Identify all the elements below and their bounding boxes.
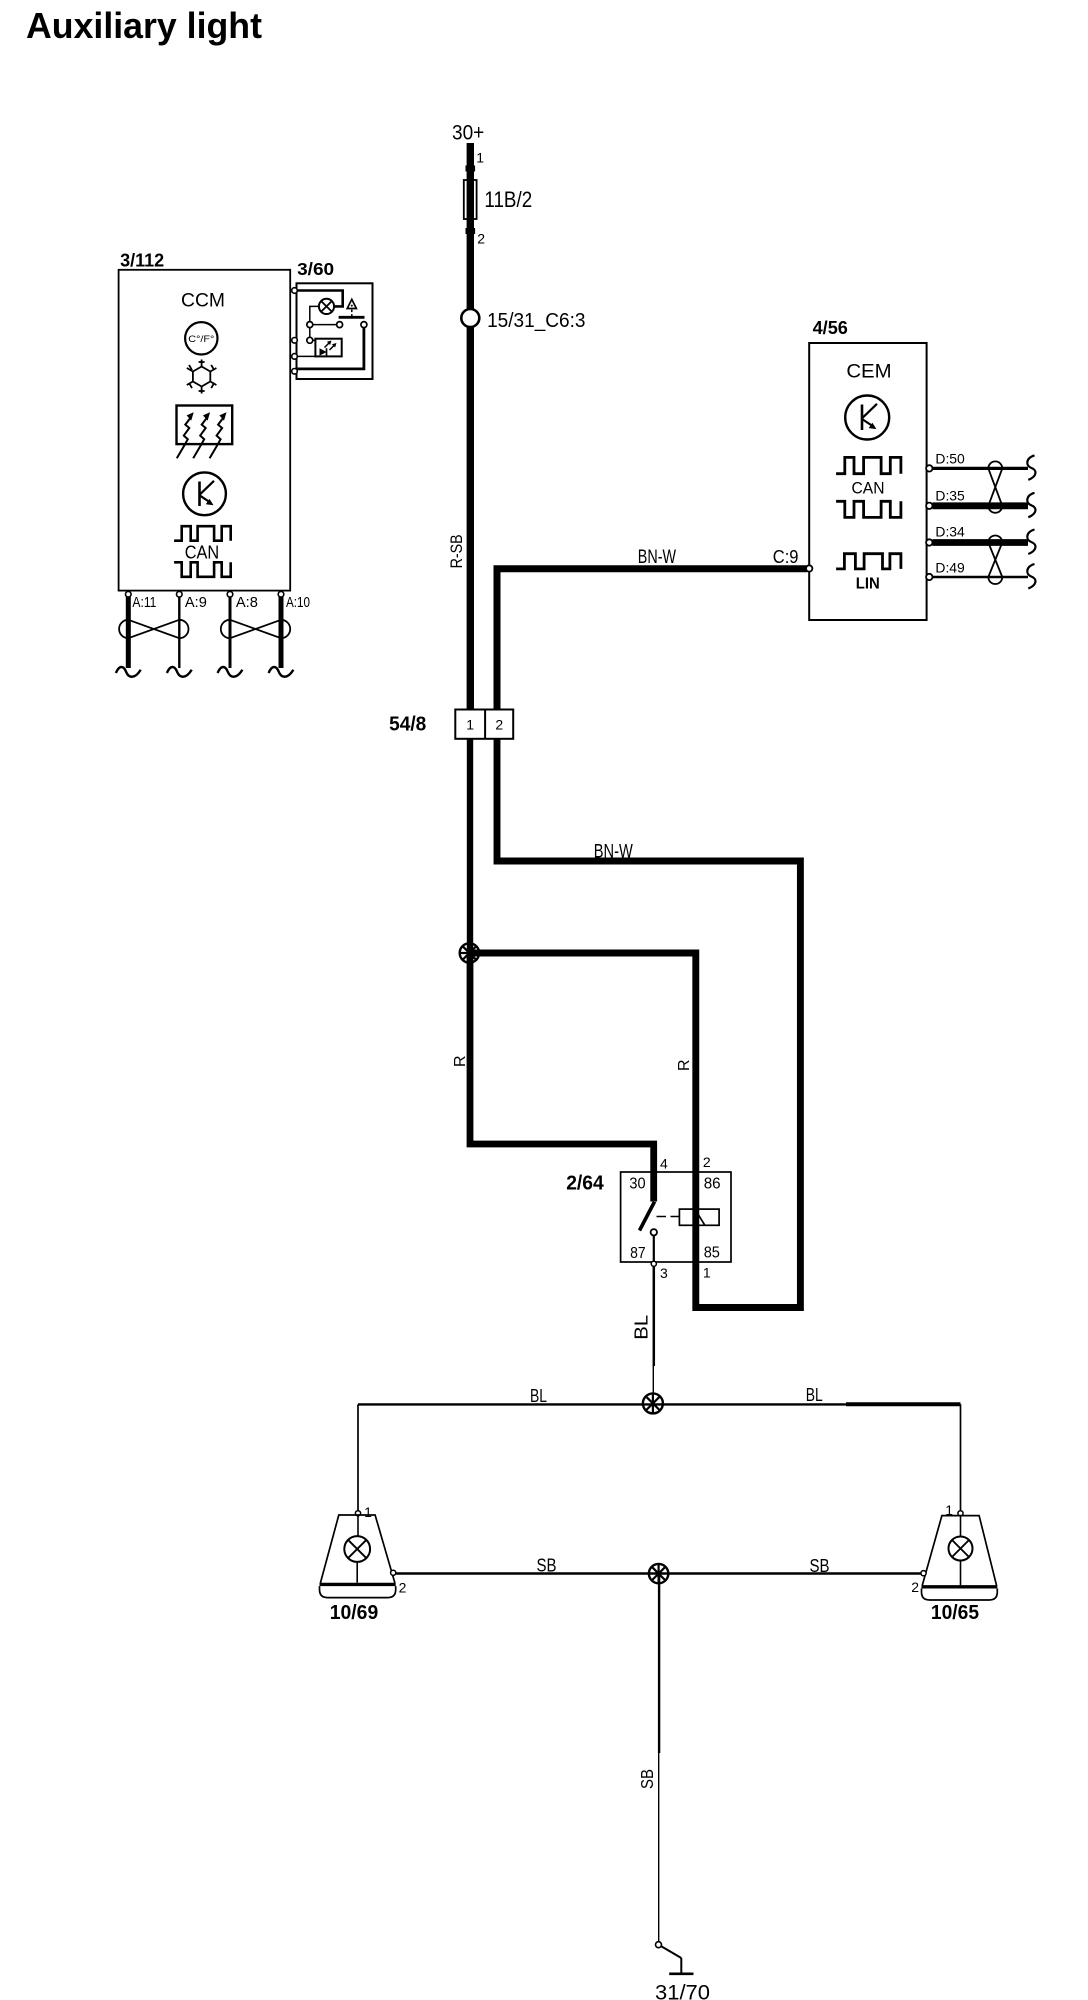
svg-text:CAN: CAN <box>185 542 219 562</box>
fuse 11B/2 <box>464 180 477 219</box>
CCM temperature icon <box>185 322 217 354</box>
twisted pair A:8/A:10 <box>221 620 290 638</box>
relay wire contact to pin 3 <box>653 1236 655 1264</box>
wire from D:34 <box>933 539 1029 546</box>
svg-text:CAN: CAN <box>852 480 885 498</box>
3/60 switch bar <box>339 316 365 319</box>
3/60 node to LED <box>307 337 313 343</box>
node 15/31_C6:3 <box>461 309 479 327</box>
wire R-SB trunk (30+ to connector 54/8 pin 1) <box>467 143 474 711</box>
svg-text:10/65: 10/65 <box>931 1602 979 1624</box>
svg-text:BN-W: BN-W <box>638 547 676 568</box>
svg-text:87: 87 <box>630 1245 646 1262</box>
svg-text:CEM: CEM <box>846 361 891 383</box>
svg-text:3: 3 <box>660 1265 668 1281</box>
relay coil <box>679 1209 719 1225</box>
svg-text:86: 86 <box>704 1176 721 1193</box>
3/60 node <box>337 322 343 328</box>
wire R (connector pin 1 down to junction) <box>467 739 473 953</box>
svg-text:1: 1 <box>703 1264 711 1280</box>
svg-text:85: 85 <box>704 1244 720 1261</box>
svg-text:R: R <box>676 1059 693 1071</box>
wire from A:11 <box>126 597 131 668</box>
wire BL drop to lamp 10/69 <box>357 1404 359 1511</box>
svg-text:54/8: 54/8 <box>389 713 426 735</box>
svg-text:31/70: 31/70 <box>655 1982 710 2000</box>
wire end curl D:50 <box>1027 455 1035 480</box>
CCM pin A:11 <box>126 592 132 598</box>
svg-text:2: 2 <box>495 717 503 733</box>
CCM pin A:10 <box>278 592 284 598</box>
svg-text:D:50: D:50 <box>935 451 965 467</box>
svg-text:3/60: 3/60 <box>297 259 334 279</box>
wire from A:10 <box>279 597 284 668</box>
svg-text:C:9: C:9 <box>773 547 799 567</box>
relay 2/64 box <box>621 1172 731 1262</box>
svg-text:2: 2 <box>703 1154 711 1170</box>
svg-text:A:9: A:9 <box>185 594 207 611</box>
svg-text:15/31_C6:3: 15/31_C6:3 <box>487 309 585 332</box>
svg-text:1: 1 <box>476 150 484 166</box>
ground 31/70 <box>655 1942 710 2000</box>
svg-text:BL: BL <box>530 1386 547 1406</box>
svg-text:2: 2 <box>911 1579 919 1595</box>
3/60 LED box <box>315 339 341 357</box>
svg-text:CCM: CCM <box>181 291 225 312</box>
3/60 LED symbol <box>320 341 337 356</box>
3/60 wires to nodes <box>310 306 319 321</box>
wire end curl A:8 <box>218 667 243 677</box>
wire BL (relay pin 3 to junction) <box>653 1266 656 1366</box>
3/60 wire from right node to bottom pin <box>297 328 364 369</box>
svg-text:3/112: 3/112 <box>120 250 164 270</box>
svg-text:1: 1 <box>466 717 474 733</box>
svg-text:BL: BL <box>806 1385 823 1405</box>
CEM transistor (K) icon <box>845 396 889 440</box>
svg-text:LIN: LIN <box>856 576 880 593</box>
lamp 10/65 <box>911 1502 997 1624</box>
svg-text:D:49: D:49 <box>935 559 965 575</box>
svg-text:4/56: 4/56 <box>813 318 848 338</box>
CEM pin D:35 <box>926 503 932 509</box>
lamp 10/69 <box>320 1504 407 1624</box>
svg-text:11B/2: 11B/2 <box>484 187 532 212</box>
twisted pair D:34/D:49 <box>988 536 1002 585</box>
wire end curl A:10 <box>269 667 294 677</box>
svg-text:SB: SB <box>537 1556 557 1576</box>
3/60 node <box>307 322 313 328</box>
wire R (junction down to relay pin 4) <box>470 953 654 1202</box>
svg-text:4: 4 <box>660 1156 668 1172</box>
wire end curl D:49 <box>1027 564 1035 589</box>
3/60 node <box>361 322 367 328</box>
wire from A:8 <box>229 597 232 668</box>
svg-text:BL: BL <box>631 1315 652 1340</box>
svg-text:BN-W: BN-W <box>594 842 633 863</box>
3/60 pin 2 <box>292 338 298 344</box>
CCM pin A:9 <box>177 592 183 598</box>
wire SB to ground <box>658 1574 660 1754</box>
svg-text:2/64: 2/64 <box>566 1173 604 1195</box>
CCM CAN icon <box>174 526 231 577</box>
CCM snowflake icon <box>187 360 217 394</box>
pin 2 tick of fuse 11B/2 <box>466 228 476 234</box>
wire BL horizontal <box>358 1403 846 1405</box>
svg-text:A:11: A:11 <box>132 594 156 611</box>
wire from A:9 <box>178 597 180 668</box>
wire from D:35 <box>933 502 1029 509</box>
CEM CAN icon <box>836 457 901 517</box>
svg-text:R-SB: R-SB <box>447 534 466 568</box>
svg-text:C°/F°: C°/F° <box>188 334 214 345</box>
3/60 pin 3 <box>292 354 298 360</box>
wire end curl A:11 <box>116 667 141 677</box>
svg-text:D:35: D:35 <box>935 488 965 504</box>
svg-text:30+: 30+ <box>452 121 484 144</box>
wire BL drop to lamp 10/65 <box>960 1404 962 1511</box>
relay mechanical link dashes <box>657 1216 680 1218</box>
wire end curl D:35 <box>1027 493 1035 518</box>
wire end curl D:34 <box>1027 530 1035 555</box>
wire from D:49 <box>933 576 1029 578</box>
wire SB horizontal <box>396 1572 921 1574</box>
svg-text:Auxiliary light: Auxiliary light <box>26 5 262 46</box>
CEM pin C:9 <box>806 565 812 571</box>
svg-text:D:34: D:34 <box>935 524 965 540</box>
CEM LIN icon <box>836 554 901 569</box>
connector 54/8 <box>455 710 513 739</box>
svg-text:2: 2 <box>477 230 485 246</box>
CEM pin D:34 <box>926 539 932 545</box>
3/60 pin 1 <box>292 288 298 294</box>
junction BL <box>643 1393 663 1413</box>
CCM transistor (K) icon <box>183 472 226 515</box>
wire R (junction right, down through relay coil, loop to BN-W) <box>469 739 800 1308</box>
svg-text:SB: SB <box>637 1769 657 1789</box>
svg-text:SB: SB <box>810 1556 830 1576</box>
3/60 lamp wire <box>297 291 343 307</box>
svg-text:R: R <box>452 1055 469 1067</box>
twisted pair A:11/A:9 <box>119 620 188 638</box>
junction (crimp) on R wire <box>460 943 479 962</box>
relay fixed contact <box>651 1229 657 1235</box>
pin 1 tick of fuse 11B/2 <box>466 166 476 172</box>
wire BN-W (CEM C:9 to connector 54/8 pin 2) <box>497 569 807 711</box>
3/60 wire pin3 to LED <box>297 355 316 357</box>
svg-text:1: 1 <box>364 1504 372 1520</box>
wire from D:50 <box>933 467 1029 470</box>
3/60 pin 4 <box>292 369 298 375</box>
relay pin 3 <box>651 1261 656 1266</box>
wire end curl A:9 <box>167 667 192 677</box>
CEM pin D:50 <box>926 465 932 471</box>
CCM heated window icon <box>177 406 233 459</box>
relay switch blade <box>640 1202 655 1231</box>
svg-text:10/69: 10/69 <box>330 1602 379 1624</box>
junction SB <box>649 1564 668 1583</box>
svg-text:2: 2 <box>399 1580 407 1596</box>
CEM pin D:49 <box>926 574 932 580</box>
svg-text:30: 30 <box>629 1176 645 1193</box>
twisted pair D:50/D:35 <box>988 461 1002 512</box>
svg-text:A:8: A:8 <box>236 594 258 611</box>
svg-text:A:10: A:10 <box>286 594 310 611</box>
CCM pin A:8 <box>227 592 233 598</box>
3/60 warning triangle <box>347 299 356 308</box>
relay switch pivot <box>652 1201 655 1204</box>
3/60 lamp symbol <box>319 299 334 314</box>
